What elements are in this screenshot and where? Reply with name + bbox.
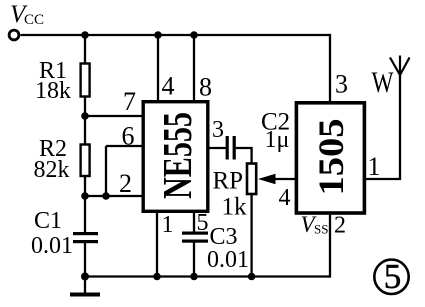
svg-text:4: 4 [279, 185, 291, 211]
svg-text:CC: CC [24, 12, 44, 28]
op-amp U1 NE555 box [143, 102, 208, 212]
transistor U2 1505 box [296, 103, 364, 213]
wire C3 to bus [193, 242, 195, 277]
svg-text:1: 1 [162, 212, 174, 238]
svg-text:4: 4 [162, 72, 175, 101]
wire pin5 [193, 212, 195, 232]
svg-text:3: 3 [212, 117, 224, 143]
wire pin2 (1505) [329, 212, 331, 278]
wire pin6 vertical [105, 146, 107, 196]
svg-text:1k: 1k [222, 194, 248, 221]
svg-text:RP: RP [213, 168, 244, 195]
wire pin6 horizontal [106, 145, 142, 147]
svg-text:1505: 1505 [311, 119, 351, 196]
wire 1505 pin3 vertical [329, 34, 331, 103]
svg-text:6: 6 [122, 122, 135, 151]
Vcc terminal [9, 30, 19, 40]
wire node to R2 [84, 116, 86, 145]
svg-text:2: 2 [334, 213, 346, 239]
svg-text:C1: C1 [34, 208, 62, 234]
svg-text:0.01: 0.01 [207, 247, 249, 273]
wire node to C1 [84, 196, 86, 233]
svg-text:82k: 82k [34, 157, 70, 183]
svg-text:SS: SS [314, 222, 328, 237]
label Vss [301, 212, 329, 237]
capacitor C1 [73, 232, 98, 243]
svg-text:18k: 18k [35, 78, 71, 104]
node junction R2-C1-pin2 [81, 192, 89, 200]
node junction top-R1 [81, 31, 89, 39]
svg-text:1μ: 1μ [265, 127, 290, 153]
svg-text:8: 8 [199, 73, 212, 102]
wire pin2 [85, 195, 142, 197]
ground [70, 277, 100, 295]
svg-text:7: 7 [123, 87, 136, 116]
node junction top-pin4 [154, 31, 162, 39]
node junction top-pin8 [190, 31, 198, 39]
wire R1 to node [84, 97, 86, 117]
wire pin1 (1505) to antenna [365, 74, 400, 179]
potentiometer RP body [247, 164, 256, 195]
resistor R1 [81, 64, 90, 97]
wire pin1 [156, 212, 158, 277]
Vcc label [10, 1, 44, 28]
capacitor C2 [226, 136, 236, 160]
svg-text:2: 2 [119, 169, 132, 198]
svg-text:3: 3 [335, 70, 348, 99]
svg-text:W: W [372, 66, 395, 99]
wire RP to bus [250, 194, 252, 277]
wire pin3 [209, 147, 226, 149]
node junction RP-bus [248, 273, 256, 281]
wire top bus [21, 34, 331, 36]
node junction pin1-bus [153, 273, 161, 281]
node junction R1-R2-pin7 [81, 112, 89, 120]
wire C1 to ground bus [84, 243, 86, 277]
wire R2 to node [84, 176, 86, 196]
svg-text:5: 5 [384, 257, 402, 296]
antenna W [390, 56, 410, 76]
wire bottom bus [85, 275, 330, 277]
svg-text:NE555: NE555 [154, 112, 200, 199]
figure number 5 [374, 257, 408, 296]
node junction pin6-pin2 [102, 192, 110, 200]
node junction C3-bus [190, 273, 198, 281]
wire C2 to RP [236, 148, 252, 163]
wire pin7 [85, 115, 142, 117]
node junction ground [81, 273, 89, 281]
wire pin8 [193, 35, 195, 102]
wire pin4 [157, 35, 159, 102]
svg-text:0.01: 0.01 [31, 233, 73, 259]
capacitor C3 [182, 232, 208, 243]
wiper arrow of RP [258, 174, 296, 184]
wire Vcc to R1 [84, 35, 86, 64]
resistor R2 [81, 145, 90, 177]
svg-text:1: 1 [368, 152, 381, 181]
